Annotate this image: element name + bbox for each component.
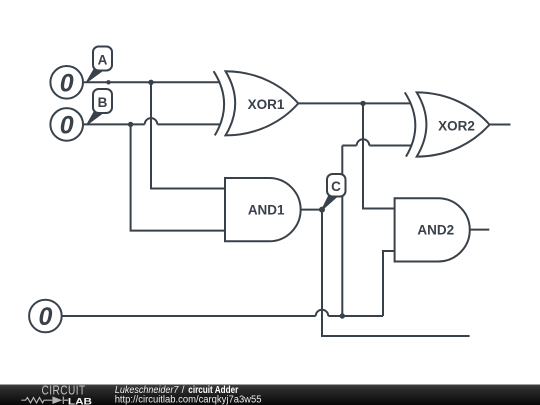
node B: flag tail — [88, 111, 103, 123]
source: input B (logic 0) — [50, 108, 83, 141]
node C: flag tail — [323, 195, 337, 209]
wire: Cin up to AND2 input 2 — [383, 251, 395, 316]
wire: Cin from input circle — [63, 315, 316, 317]
svg-text:AND2: AND2 — [417, 222, 454, 237]
footer: bar — [0, 385, 540, 405]
wire: net B from input to XOR1 input 2 — [84, 123, 145, 125]
svg-text:0: 0 — [38, 303, 52, 331]
node A: flag tail — [87, 69, 102, 81]
svg-text:XOR1: XOR1 — [248, 97, 285, 112]
node B: label box — [93, 89, 112, 113]
junction: A branch node — [148, 80, 153, 85]
svg-text:0: 0 — [60, 111, 74, 139]
wire: AND1 output stub — [301, 209, 322, 211]
source: input A (logic 0) — [50, 66, 83, 99]
wire hop: XOR2 input 2 over AND2 branch — [357, 139, 370, 145]
wire: AND2 output stub — [470, 229, 490, 231]
wire: XOR1 output to XOR2 input 1 — [298, 102, 411, 104]
wire: net A from input to XOR1 input 1 — [84, 81, 221, 83]
wire: AND1 carry down and right — [322, 210, 470, 336]
svg-text:A: A — [98, 52, 108, 67]
wire: XOR2 input 2 horizontal — [342, 145, 356, 147]
wire: XOR2 output (sum) — [490, 124, 511, 126]
junction: AND1 output node C — [319, 207, 325, 213]
svg-text:http://circuitlab.com/carqkyj7: http://circuitlab.com/carqkyj7a3w55 — [115, 394, 262, 405]
svg-text:AND1: AND1 — [248, 202, 285, 217]
source: input Cin (logic 0) — [29, 300, 62, 333]
footer: logo resistor zigzag and diode — [21, 397, 68, 404]
op: AND1 gate — [225, 178, 301, 241]
wire: A branch down to AND1 input 1 — [151, 82, 225, 188]
svg-text:XOR2: XOR2 — [438, 118, 475, 133]
wire hop: Cin over AND1 carry wire — [316, 310, 329, 316]
op: AND2 gate — [395, 198, 470, 261]
svg-text:C: C — [331, 179, 341, 194]
op: XOR1 gate — [214, 71, 299, 135]
svg-text:0: 0 — [60, 69, 74, 97]
op: XOR2 gate — [405, 92, 490, 156]
wire: XOR1 output branch down to AND2 input 1 — [363, 103, 395, 208]
node C: label box — [327, 174, 346, 197]
junction: Cin node — [340, 313, 345, 318]
wire hop: net B over A branch — [145, 118, 158, 124]
svg-text:LAB: LAB — [68, 398, 93, 405]
svg-text:CIRCUIT: CIRCUIT — [42, 384, 86, 397]
junction: B branch node — [128, 122, 133, 127]
svg-text:B: B — [98, 95, 108, 110]
wire: B branch down to AND1 input 2 — [131, 124, 225, 230]
junction: XOR1 output node — [360, 101, 365, 106]
junction: A label anchor — [106, 80, 110, 84]
node A: label box — [93, 47, 112, 71]
wire: Cin riser up to XOR2 input 2 — [341, 146, 343, 317]
